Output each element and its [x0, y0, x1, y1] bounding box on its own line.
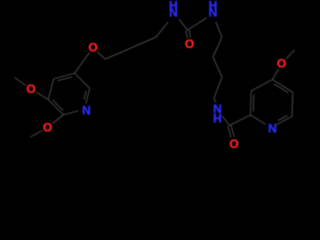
urea C=O double bond	[186, 30, 191, 39]
amide C=O double bond	[228, 125, 234, 138]
right chain (N-CH2CH2CH2CH2-N)	[213, 22, 222, 103]
svg-text:H: H	[213, 112, 222, 126]
methyl on right methoxy	[286, 50, 295, 59]
svg-text:O: O	[185, 37, 194, 51]
svg-text:O: O	[43, 121, 52, 135]
svg-text:N: N	[82, 104, 91, 118]
left chain (O-CH2CH2CH2-N)	[97, 22, 168, 59]
methyl on lower-left methoxy	[31, 130, 43, 137]
left pyridine ring	[48, 73, 90, 115]
svg-text:O: O	[229, 137, 238, 151]
urea bond C-N (right)	[188, 18, 207, 30]
svg-text:N: N	[268, 122, 277, 136]
urea bond N-C (left)	[179, 19, 188, 30]
svg-text:H: H	[209, 0, 218, 13]
bond C-O (lower-left methoxy)	[52, 115, 63, 124]
right ring double bonds	[253, 84, 288, 121]
methyl on upper-left methoxy	[15, 78, 27, 86]
svg-text:H: H	[169, 0, 178, 13]
right pyridine ring	[250, 80, 292, 125]
bond C-O (left ether)	[75, 52, 90, 73]
amide bond C-ring	[230, 115, 251, 126]
svg-text:O: O	[277, 57, 286, 71]
bond C-O (upper-left methoxy)	[36, 92, 48, 100]
svg-text:O: O	[88, 41, 97, 55]
left ring double bonds	[53, 77, 87, 111]
amide bond N-C	[222, 116, 229, 126]
svg-text:O: O	[26, 82, 35, 96]
bond C-O (right methoxy)	[272, 69, 278, 80]
